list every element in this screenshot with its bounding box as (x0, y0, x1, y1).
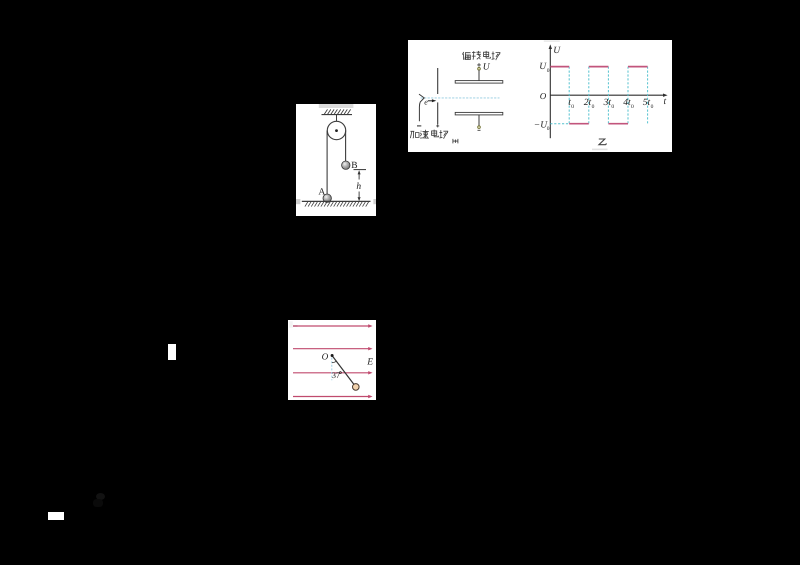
top deflection plate (455, 81, 503, 84)
anode plus label (436, 124, 439, 127)
electron beam dashed line (421, 97, 500, 99)
h reference line (354, 169, 367, 171)
cyan dashed transition at 2t0 (588, 67, 590, 124)
gray band artifact top (319, 104, 354, 108)
ceiling hatching (324, 109, 350, 114)
svg-text:U: U (483, 63, 491, 73)
small artifact mark (453, 139, 458, 144)
h dimension arrow down (358, 192, 360, 198)
text 加速电场 (accelerating field) (410, 130, 448, 139)
wire to top plate (478, 70, 480, 81)
svg-text:4t: 4t (623, 98, 631, 108)
text 偏转电场 (deflection field) (462, 51, 500, 60)
pulley support wire (336, 115, 338, 131)
svg-text:2t: 2t (584, 98, 592, 108)
cathode chevron (419, 94, 424, 121)
pendulum rod (332, 356, 356, 387)
pivot dot O (331, 354, 334, 357)
svg-text:0: 0 (611, 104, 614, 110)
svg-text:0: 0 (592, 104, 595, 110)
white rectangle artifact (bottom left) (48, 512, 64, 520)
cyan dashed -U0 level (550, 123, 569, 125)
gray streak artifact top (544, 40, 560, 41)
ceiling line (322, 114, 353, 116)
cyan dashed transition at 3t0 (607, 67, 609, 124)
figure panel: electron gun + deflection field + U-t graph (乙) (408, 40, 672, 152)
cathode minus label (417, 125, 421, 127)
svg-text:0: 0 (651, 104, 654, 110)
square wave high segment 3 (628, 66, 648, 68)
anode plate line (lower part) (437, 102, 439, 124)
svg-text:37: 37 (332, 371, 340, 380)
angle arc (332, 361, 337, 363)
svg-text:0: 0 (631, 104, 634, 110)
U axis (vertical) (549, 48, 551, 138)
pulley wheel (327, 121, 345, 139)
square wave high segment 1 (550, 66, 569, 68)
figure panel: charged pendulum in uniform field E (288, 320, 376, 400)
svg-text:t: t (664, 97, 667, 107)
pendulum bob (353, 384, 360, 391)
ground line (302, 200, 371, 202)
bottom terminal circle (478, 126, 481, 129)
svg-text:E: E (366, 358, 373, 368)
electron velocity arrow (428, 100, 433, 102)
ground hatching (305, 202, 369, 207)
rope right segment (345, 131, 347, 162)
svg-text:U: U (553, 46, 561, 56)
square wave high segment 2 (589, 66, 609, 68)
svg-text:0: 0 (547, 126, 550, 132)
h dimension arrow up (358, 174, 360, 180)
field line 2 (293, 348, 369, 350)
cyan dashed transition at t0 (568, 67, 570, 124)
faint dark smudge (96, 493, 105, 500)
plus sign at top terminal (477, 63, 481, 67)
square wave low segment 2 (608, 123, 628, 125)
mass A (323, 194, 331, 202)
figure panel: pulley system (甲) (296, 104, 376, 216)
field line 1 (289, 321, 293, 328)
gray band artifact ground-right (373, 199, 376, 204)
svg-text:h: h (356, 182, 361, 192)
gray streak artifact below caption (592, 149, 608, 151)
svg-text:O: O (322, 352, 329, 362)
wire from bottom plate (478, 115, 480, 126)
svg-text:5t: 5t (643, 98, 651, 108)
vertical dashed reference (331, 358, 333, 381)
svg-text:O: O (540, 91, 547, 101)
svg-text:0: 0 (571, 104, 574, 110)
svg-text:0: 0 (547, 68, 550, 74)
mass B (342, 161, 350, 169)
anode plate line (upper part) (437, 68, 439, 94)
t axis (horizontal) (550, 94, 664, 96)
caption 乙 (599, 139, 607, 145)
gray band artifact ground-left (296, 199, 300, 204)
cyan dashed transition at 4t0 (627, 67, 629, 124)
field line 4 (293, 396, 369, 398)
top terminal circle (478, 68, 481, 71)
svg-text:e: e (424, 98, 428, 107)
cyan dashed transition at 5t0 (647, 67, 649, 125)
svg-text:3t: 3t (603, 98, 612, 108)
rope left segment (326, 131, 328, 195)
bottom deflection plate (455, 112, 503, 115)
square wave low segment 1 (569, 123, 589, 125)
white rectangle artifact (mid page) (168, 344, 176, 360)
minus sign bottom terminal (478, 129, 481, 131)
field line 3 (293, 372, 369, 374)
pulley axle dot (335, 129, 338, 132)
